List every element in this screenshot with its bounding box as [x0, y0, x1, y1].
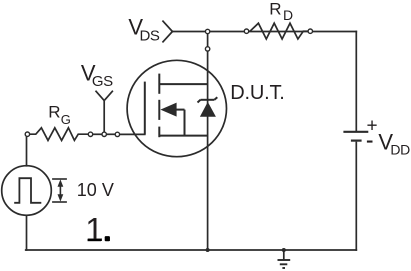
svg-text:10 V: 10 V	[77, 180, 114, 200]
svg-text:R: R	[48, 103, 60, 122]
svg-text:GS: GS	[92, 73, 113, 90]
svg-text:G: G	[61, 112, 71, 127]
svg-text:DD: DD	[390, 142, 410, 158]
svg-text:D.U.T.: D.U.T.	[230, 82, 284, 104]
svg-text:R: R	[269, 0, 281, 18]
svg-text:DS: DS	[140, 28, 160, 45]
svg-text:1.: 1.	[85, 211, 113, 248]
svg-text:D: D	[283, 7, 293, 23]
svg-text:+: +	[367, 115, 378, 136]
